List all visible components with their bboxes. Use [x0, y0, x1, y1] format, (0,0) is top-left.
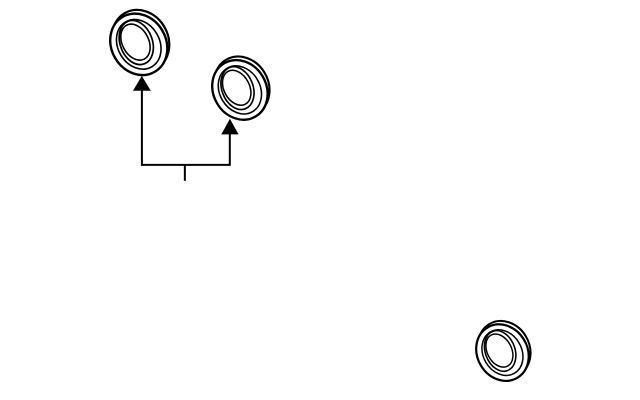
- label tick: [184, 165, 186, 181]
- arrow head to seal 2: [221, 119, 238, 135]
- oil seal 2 (middle): [201, 46, 280, 130]
- bracket leader line: [142, 90, 230, 165]
- arrow head to seal 1: [133, 76, 151, 91]
- oil seal 1 (top left): [99, 0, 180, 86]
- oil seal 3 (bottom right): [466, 311, 541, 390]
